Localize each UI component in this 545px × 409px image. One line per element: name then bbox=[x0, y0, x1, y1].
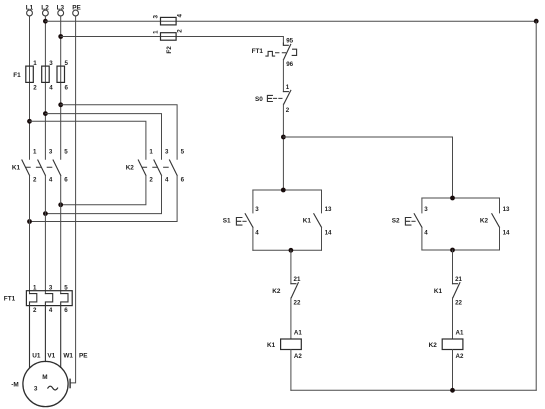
wire L3 top section bbox=[60, 16, 62, 159]
svg-text:K1: K1 bbox=[434, 288, 443, 295]
wire L1 K1-to-FT1 bbox=[29, 175, 31, 293]
svg-text:2: 2 bbox=[286, 107, 290, 114]
wire K2 NC to coil K1 bbox=[290, 298, 292, 339]
contact K2 aux 21-22 NC bbox=[272, 276, 301, 307]
wire PE full drop bbox=[70, 16, 76, 383]
node control split bbox=[281, 135, 286, 140]
svg-text:21: 21 bbox=[294, 276, 301, 283]
wire L2 K1-to-FT1 bbox=[44, 175, 46, 293]
overload FT1 heater phase 1 bbox=[30, 285, 38, 368]
control line A (top rail from L2) bbox=[45, 20, 536, 22]
PE motor-frame bar bbox=[69, 379, 71, 387]
svg-text:3: 3 bbox=[424, 206, 428, 213]
fuse F2 element 3-4 on line A bbox=[153, 14, 184, 25]
node L1 to K2 branch (upper) bbox=[27, 119, 32, 124]
svg-text:95: 95 bbox=[286, 38, 293, 45]
svg-text:U1: U1 bbox=[32, 352, 41, 359]
svg-text:2: 2 bbox=[149, 177, 153, 184]
svg-text:2: 2 bbox=[33, 85, 37, 92]
node L2 to control line A bbox=[43, 19, 48, 24]
node L2 to K2 branch (upper) bbox=[43, 111, 48, 116]
svg-text:M: M bbox=[42, 374, 47, 381]
svg-text:4: 4 bbox=[49, 307, 53, 314]
svg-text:3: 3 bbox=[49, 60, 53, 67]
contact K2 main 3-4 bbox=[154, 149, 169, 184]
contact K1 main 1-2 bbox=[22, 149, 37, 184]
svg-text:3: 3 bbox=[165, 149, 169, 156]
wire left box right leg upper bbox=[321, 190, 323, 213]
pushbutton S1 NO bbox=[223, 206, 259, 237]
overload FT1 heater phase 3 bbox=[61, 285, 68, 368]
svg-text:4: 4 bbox=[255, 230, 259, 237]
node left box top bbox=[281, 188, 286, 193]
contact K2 main 1-2 bbox=[138, 149, 153, 184]
svg-text:6: 6 bbox=[181, 177, 185, 184]
svg-text:-M: -M bbox=[11, 382, 18, 389]
svg-text:S1: S1 bbox=[223, 218, 231, 225]
wire coil K2 to bottom rail bbox=[452, 350, 454, 391]
svg-text:K1: K1 bbox=[303, 218, 312, 225]
svg-text:3: 3 bbox=[255, 206, 259, 213]
contact K1 aux 13-14 NO bbox=[303, 206, 332, 237]
coil K2 A1-A2 bbox=[429, 329, 464, 360]
wire left box left leg upper bbox=[252, 190, 254, 213]
svg-text:S2: S2 bbox=[392, 218, 400, 225]
node K2 return on L2 bbox=[43, 211, 48, 216]
svg-text:1: 1 bbox=[149, 149, 153, 156]
svg-text:A2: A2 bbox=[294, 353, 302, 360]
wire left box to K2 NC bbox=[290, 250, 292, 283]
node K2 branch on bottom rail bbox=[450, 388, 455, 393]
svg-text:FT1: FT1 bbox=[4, 296, 16, 303]
svg-text:2: 2 bbox=[177, 29, 184, 33]
S0 actuator dashes bbox=[273, 97, 282, 99]
wire L1 top section bbox=[29, 16, 31, 159]
svg-text:S0: S0 bbox=[255, 96, 263, 103]
wire right box right leg lower bbox=[499, 227, 501, 250]
svg-text:L2: L2 bbox=[41, 5, 49, 12]
K2 linkage dashes bbox=[142, 166, 173, 168]
svg-text:5: 5 bbox=[64, 285, 68, 292]
FT1 thermal actuator bbox=[266, 51, 275, 56]
node K2 return on L3 bbox=[58, 202, 63, 207]
wire FT1 top stub bbox=[283, 43, 288, 45]
wire coil K1 to bottom rail bbox=[290, 350, 292, 391]
FT1 NC diagonal bbox=[284, 44, 291, 59]
S2 actuator dash bbox=[412, 220, 416, 222]
wire K2 pin4 return to L2 bbox=[45, 175, 161, 213]
wire L3 to K2 pin5 bbox=[61, 105, 177, 160]
svg-text:F2: F2 bbox=[166, 46, 173, 54]
node K2 return on L1 bbox=[27, 219, 32, 224]
contact K1 aux 21-22 NC bbox=[434, 276, 463, 307]
svg-text:PE: PE bbox=[79, 352, 88, 359]
terminal L1 bbox=[26, 5, 34, 16]
S0 actuator E bbox=[267, 95, 272, 101]
svg-text:4: 4 bbox=[49, 85, 53, 92]
svg-text:3: 3 bbox=[153, 15, 160, 19]
svg-text:FT1: FT1 bbox=[252, 48, 264, 55]
svg-text:14: 14 bbox=[325, 230, 332, 237]
wire K2 pin6 return to L1 bbox=[30, 175, 178, 221]
svg-text:21: 21 bbox=[455, 276, 462, 283]
left parallel box bottom rail bbox=[253, 249, 322, 251]
wire L3 K1-to-FT1 bbox=[60, 175, 62, 293]
svg-text:13: 13 bbox=[325, 206, 332, 213]
svg-text:3: 3 bbox=[49, 285, 53, 292]
right parallel box bottom rail bbox=[422, 249, 500, 251]
FT1 actuator dashes bbox=[276, 52, 287, 54]
wire L2 top section bbox=[44, 16, 46, 159]
pushbutton S0 NC bbox=[255, 84, 291, 114]
svg-text:4: 4 bbox=[49, 177, 53, 184]
svg-text:L1: L1 bbox=[26, 5, 34, 12]
svg-text:22: 22 bbox=[294, 300, 301, 307]
svg-text:1: 1 bbox=[33, 60, 37, 67]
wire L1 to K2 pin1 bbox=[30, 121, 146, 159]
node L3 to K2 branch (upper) bbox=[58, 102, 63, 107]
svg-text:5: 5 bbox=[181, 149, 185, 156]
control line B (from L3) bbox=[61, 37, 284, 46]
svg-text:6: 6 bbox=[64, 307, 68, 314]
overload FT1 heater phase 2 bbox=[45, 285, 53, 362]
terminal L2 bbox=[41, 5, 49, 16]
wire FT1 to S0 bbox=[282, 60, 284, 92]
svg-text:K1: K1 bbox=[267, 342, 276, 349]
terminal L3 bbox=[57, 5, 65, 16]
svg-text:A1: A1 bbox=[294, 329, 302, 336]
fuse F2 element 1-2 on line B bbox=[153, 29, 184, 40]
contact K2 main 5-6 bbox=[170, 149, 185, 184]
motor terminal labels U1 V1 W1 PE bbox=[32, 352, 88, 359]
node right box bottom bbox=[450, 248, 455, 253]
wire left box right leg lower bbox=[321, 227, 323, 250]
svg-text:5: 5 bbox=[64, 149, 68, 156]
svg-text:K2: K2 bbox=[272, 288, 281, 295]
svg-text:4: 4 bbox=[424, 230, 428, 237]
fuse F1 phase L1 pins 1-2 bbox=[26, 60, 38, 91]
contact K1 main 5-6 bbox=[53, 149, 68, 184]
svg-text:3: 3 bbox=[34, 386, 38, 393]
wire right box to K1 NC bbox=[452, 250, 454, 284]
coil K1 A1-A2 bbox=[267, 329, 302, 360]
FT1 release hook bbox=[292, 49, 296, 55]
contact K1 main 3-4 bbox=[38, 149, 53, 184]
left parallel box top rail bbox=[253, 189, 322, 191]
svg-text:2: 2 bbox=[33, 177, 37, 184]
svg-text:22: 22 bbox=[455, 300, 462, 307]
wire K2 pin2 return to L3 bbox=[61, 175, 146, 204]
fuse F1 phase L2 pins 3-4 bbox=[42, 60, 54, 91]
contact FT1 95-96 thermal NC bbox=[252, 38, 297, 69]
S2 actuator E bbox=[405, 218, 411, 226]
svg-text:K2: K2 bbox=[429, 342, 438, 349]
svg-text:F1: F1 bbox=[13, 72, 21, 79]
wire L2 to K2 pin3 bbox=[45, 114, 161, 160]
svg-text:V1: V1 bbox=[47, 352, 55, 359]
svg-text:K2: K2 bbox=[480, 218, 489, 225]
svg-text:6: 6 bbox=[64, 177, 68, 184]
svg-text:14: 14 bbox=[503, 230, 510, 237]
wire branch to S2 column bbox=[283, 137, 452, 198]
wire left box left leg lower bbox=[252, 227, 254, 250]
svg-text:K1: K1 bbox=[12, 164, 21, 171]
right parallel box top rail bbox=[422, 197, 500, 199]
pushbutton S2 NO bbox=[392, 206, 428, 237]
bottom return rail bbox=[291, 389, 536, 391]
node left box bottom bbox=[289, 248, 294, 253]
svg-text:1: 1 bbox=[286, 84, 290, 91]
svg-text:4: 4 bbox=[177, 14, 184, 18]
terminal PE bbox=[72, 5, 81, 16]
svg-text:L3: L3 bbox=[57, 5, 65, 12]
contact K2 aux 13-14 NO bbox=[480, 206, 510, 237]
svg-text:1: 1 bbox=[33, 285, 37, 292]
svg-text:2: 2 bbox=[33, 307, 37, 314]
node control top-right corner bbox=[534, 19, 539, 24]
svg-text:4: 4 bbox=[165, 177, 169, 184]
svg-text:96: 96 bbox=[286, 61, 293, 68]
overload FT1 outer box bbox=[26, 291, 72, 306]
svg-text:13: 13 bbox=[503, 206, 510, 213]
S1 actuator E bbox=[236, 218, 242, 226]
svg-text:3: 3 bbox=[49, 149, 53, 156]
wire right box right leg upper bbox=[499, 198, 501, 213]
wire right return rail bbox=[535, 21, 537, 390]
K1 linkage dashes bbox=[26, 166, 57, 168]
wire right box left leg lower bbox=[421, 227, 423, 250]
motor M 3-phase bbox=[23, 361, 68, 406]
node right box top bbox=[450, 196, 455, 201]
svg-text:1: 1 bbox=[33, 149, 37, 156]
svg-text:A1: A1 bbox=[456, 329, 464, 336]
svg-text:W1: W1 bbox=[63, 352, 73, 359]
svg-text:1: 1 bbox=[153, 30, 160, 34]
wire S0 to branch node bbox=[282, 104, 284, 190]
svg-text:6: 6 bbox=[65, 85, 69, 92]
svg-text:A2: A2 bbox=[456, 353, 464, 360]
svg-text:5: 5 bbox=[65, 60, 69, 67]
wire right box left leg upper bbox=[421, 198, 423, 213]
node L3 to control line B bbox=[58, 34, 63, 39]
wire K1 NC to coil K2 bbox=[452, 298, 454, 339]
svg-text:PE: PE bbox=[72, 5, 81, 12]
fuse F1 phase L3 pins 5-6 bbox=[57, 60, 69, 91]
S1 actuator dash bbox=[243, 220, 247, 222]
svg-text:K2: K2 bbox=[126, 164, 135, 171]
